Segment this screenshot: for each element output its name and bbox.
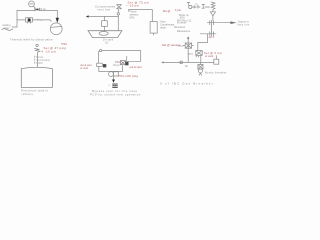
svg-text:Winterized: Winterized — [174, 26, 186, 29]
svg-text:4 -15 psi: 4 -15 psi — [41, 49, 56, 53]
svg-text:3 psi: 3 psi — [41, 9, 46, 11]
svg-text:F: F — [196, 3, 198, 7]
svg-text:Set @: Set @ — [163, 9, 171, 13]
svg-text:or vent: or vent — [80, 67, 88, 70]
svg-text:FA: FA — [185, 65, 188, 68]
svg-text:30 psi: 30 psi — [113, 64, 120, 67]
svg-text:PRV: PRV — [37, 61, 43, 65]
svg-text:PCV for closed vent operation: PCV for closed vent operation — [90, 93, 141, 97]
svg-text:PCV: PCV — [188, 52, 194, 56]
svg-text:X of IBC Gas Breather: X of IBC Gas Breather — [160, 81, 214, 85]
svg-text:drain: drain — [160, 26, 166, 30]
svg-text:water: water — [3, 26, 9, 30]
svg-text:refinery: refinery — [22, 92, 34, 96]
svg-text:PSV+OD plug: PSV+OD plug — [118, 74, 138, 78]
svg-text:30 psi: 30 psi — [37, 20, 43, 22]
svg-text:(FA): (FA) — [130, 16, 135, 20]
svg-text:out & vent: out & vent — [130, 65, 142, 69]
svg-text:1/2: 1/2 — [105, 42, 109, 45]
svg-text:Thermal relief by check valve: Thermal relief by check valve — [10, 38, 53, 42]
svg-text:set X: set X — [209, 35, 215, 39]
svg-text:or vent: or vent — [205, 54, 213, 58]
svg-text:flare line: flare line — [237, 24, 249, 27]
svg-text:Y: Y — [108, 84, 110, 88]
svg-text:Set @ vacuum: Set @ vacuum — [162, 43, 181, 47]
svg-text:(DN): (DN) — [180, 17, 185, 19]
svg-text:~ -15 psi: ~ -15 psi — [126, 4, 140, 8]
svg-text:PCV: PCV — [115, 61, 120, 64]
svg-text:Maintenance: Maintenance — [177, 30, 191, 33]
svg-text:Hydro breaker: Hydro breaker — [205, 70, 227, 74]
svg-text:X psi: X psi — [175, 8, 181, 12]
svg-text:vent line: vent line — [97, 8, 110, 12]
svg-text:for winter: for winter — [177, 22, 187, 25]
